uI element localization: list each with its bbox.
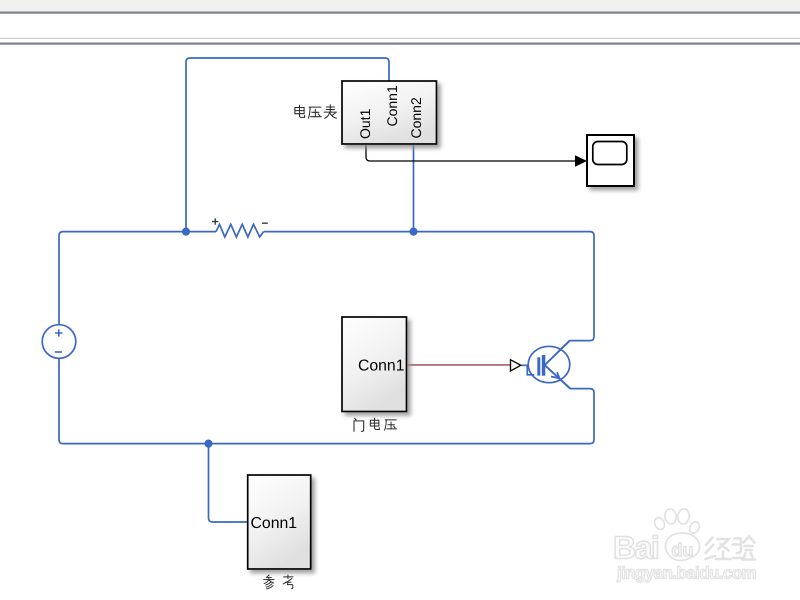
- svg-text:jingyan.baidu.com: jingyan.baidu.com: [616, 564, 757, 583]
- svg-text:Conn1: Conn1: [251, 515, 298, 532]
- svg-text:Conn1: Conn1: [358, 358, 405, 375]
- svg-text:Bai: Bai: [613, 530, 658, 566]
- svg-text:Conn1: Conn1: [384, 85, 400, 126]
- svg-text:du: du: [672, 540, 694, 560]
- svg-text:Out1: Out1: [357, 108, 373, 139]
- svg-text:Conn2: Conn2: [408, 97, 424, 138]
